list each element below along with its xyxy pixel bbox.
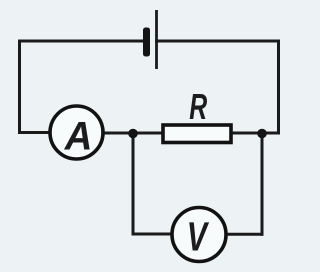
svg-text:R: R	[189, 86, 207, 127]
wire left branch vertical	[132, 134, 135, 235]
battery B1 negative plate (thick short bar)	[143, 28, 150, 57]
resistor R body	[163, 125, 231, 143]
svg-text:A: A	[64, 115, 93, 159]
voltmeter U2 circle	[172, 208, 226, 262]
wire right branch vertical	[261, 134, 264, 235]
wire left to ammeter	[20, 131, 52, 134]
wire right vertical	[277, 41, 280, 133]
wire bottom-right horizontal	[226, 233, 262, 236]
junction node right	[257, 129, 267, 139]
wire top-right horizontal	[157, 40, 279, 43]
wire left vertical	[18, 41, 21, 133]
svg-text:V: V	[187, 214, 210, 259]
wire resistor to right corner	[231, 132, 279, 135]
ammeter U1 circle	[50, 106, 103, 159]
wire ammeter to resistor	[103, 132, 164, 135]
wire bottom-left horizontal	[133, 233, 173, 236]
junction node left	[128, 129, 138, 139]
battery B1 positive plate (thin long line)	[155, 10, 158, 69]
wire top-left horizontal	[20, 40, 144, 43]
